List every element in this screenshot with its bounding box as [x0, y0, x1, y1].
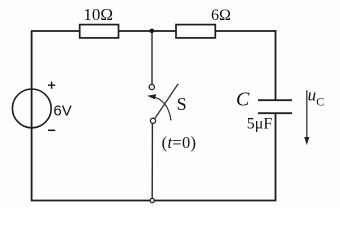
- wire right vertical lower (from capacitor): [275, 113, 277, 200]
- switch S bottom terminal: [150, 118, 155, 123]
- svg-text:C: C: [316, 94, 324, 108]
- switch motion arrowhead: [147, 94, 156, 99]
- svg-text:6Ω: 6Ω: [211, 7, 231, 24]
- wire between junction and R2: [152, 30, 176, 32]
- wire bottom: [31, 200, 277, 202]
- voltage source plus sign: [48, 82, 55, 89]
- wire top-right segment: [215, 30, 276, 32]
- voltage source minus sign: [48, 129, 55, 131]
- wire top-left segment: [31, 30, 80, 32]
- junction node dot: [150, 29, 155, 34]
- uC arrowhead: [304, 137, 309, 145]
- capacitor C top plate: [258, 99, 292, 101]
- svg-text:C: C: [236, 88, 250, 110]
- svg-text:6V: 6V: [53, 103, 71, 120]
- wire switch branch upper: [151, 31, 153, 84]
- uC arrow line: [306, 90, 308, 138]
- bottom terminal node circle: [150, 198, 154, 202]
- svg-text:S: S: [177, 94, 187, 114]
- wire left vertical: [31, 31, 33, 201]
- resistor R1 10ohm box: [80, 25, 119, 38]
- switch S top terminal: [149, 84, 154, 89]
- svg-text:10Ω: 10Ω: [83, 5, 113, 24]
- svg-text:(t=0): (t=0): [162, 133, 197, 152]
- capacitor C bottom plate: [258, 112, 292, 114]
- wire switch branch lower: [151, 123, 153, 199]
- switch motion arc: [152, 97, 172, 121]
- svg-text:5μF: 5μF: [247, 116, 273, 133]
- wire right vertical upper (to capacitor): [275, 30, 277, 100]
- voltage source circle: [12, 89, 51, 128]
- svg-text:u: u: [308, 86, 317, 105]
- switch S blade: [155, 84, 178, 118]
- wire between R1 and junction: [119, 30, 153, 32]
- resistor R2 6ohm box: [176, 25, 215, 38]
